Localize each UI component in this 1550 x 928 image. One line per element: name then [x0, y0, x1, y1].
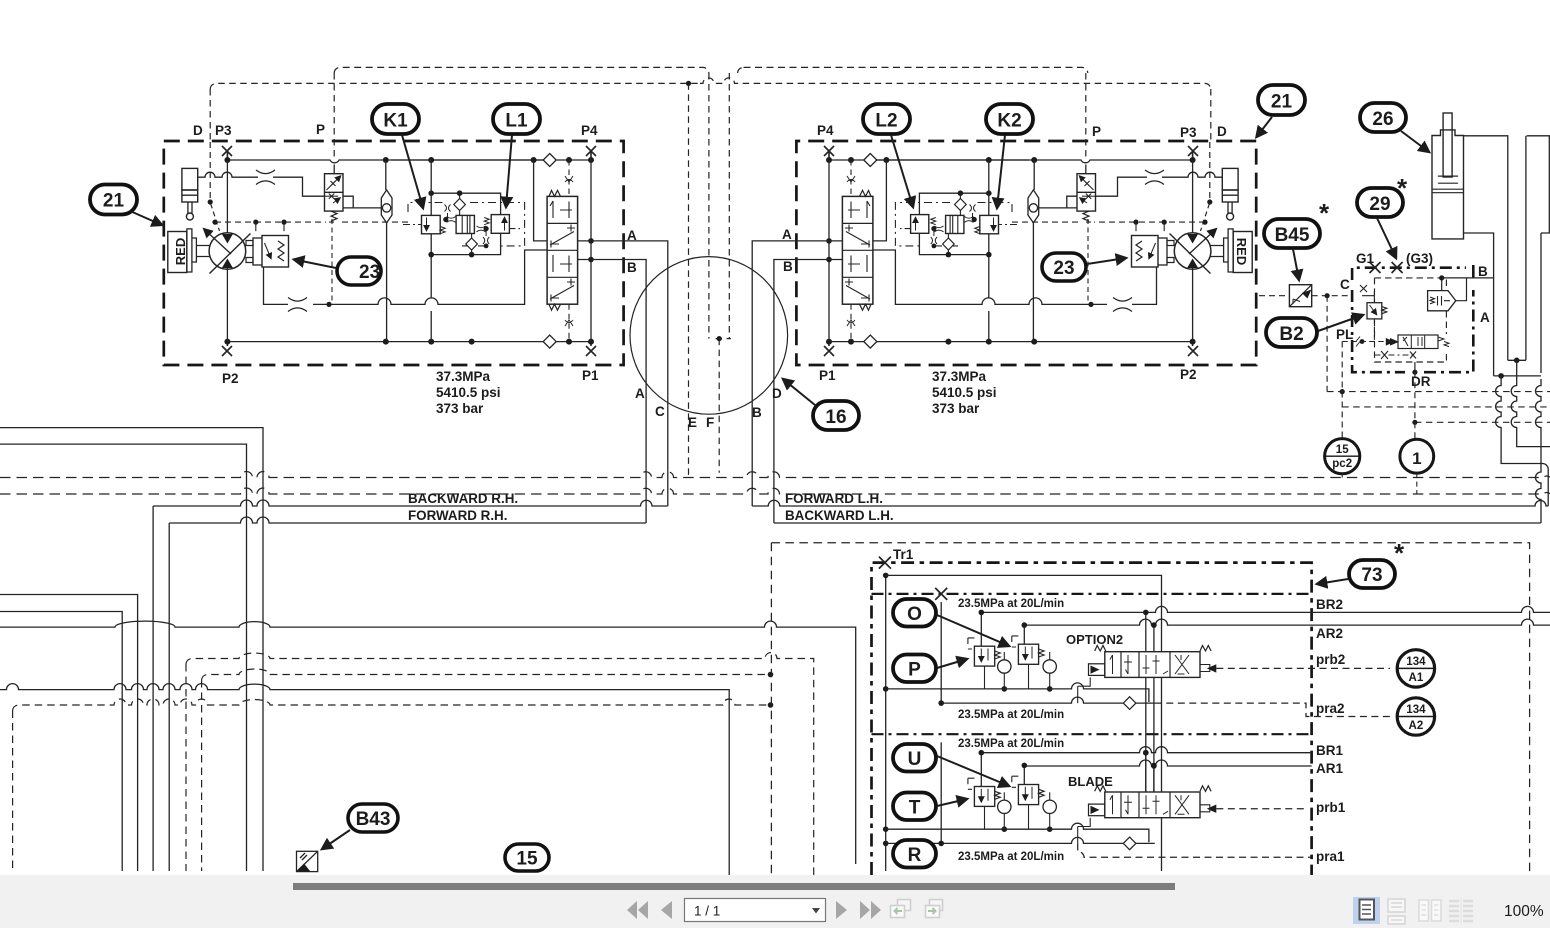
svg-text:C: C	[1340, 277, 1350, 292]
svg-text:373 bar: 373 bar	[932, 401, 980, 416]
B45 dashed connections	[1259, 295, 1352, 297]
svg-text:B: B	[783, 259, 793, 274]
svg-text:B43: B43	[356, 809, 391, 830]
svg-text:T: T	[909, 798, 921, 819]
svg-text:1 / 1: 1 / 1	[694, 904, 720, 919]
svg-text:AR1: AR1	[1316, 761, 1343, 776]
dashed F vertical	[718, 339, 720, 473]
dashed vertical right of mid	[716, 73, 731, 339]
feedback arrow to small circle	[204, 229, 231, 254]
svg-text:*: *	[1394, 538, 1405, 568]
callout 73	[1317, 538, 1405, 588]
big circle 16 (swivel)	[630, 257, 788, 415]
spool springs	[549, 190, 561, 196]
svg-text:L2: L2	[875, 111, 897, 132]
O section top rail	[886, 575, 1162, 651]
orifice right of shuttle	[477, 226, 486, 232]
top interconnect dashed rect P-P	[334, 67, 1088, 73]
dash stub below circles to bottom dashed lines	[1342, 473, 1417, 494]
reducing valve 1	[968, 638, 975, 649]
svg-text:prb1: prb1	[1316, 800, 1346, 815]
pump variable diagonal	[210, 234, 251, 274]
cylinder output line with hops	[198, 172, 325, 196]
svg-text:A: A	[627, 228, 637, 243]
enclosure 21 (heavy dashed box)	[164, 141, 624, 365]
horizontal y=689.6	[0, 684, 729, 875]
callout B2	[1266, 315, 1363, 347]
svg-text:73: 73	[1361, 565, 1382, 586]
diamond on pra feed	[1123, 697, 1136, 710]
svg-text:Tr1: Tr1	[893, 547, 914, 562]
pump triangles	[222, 234, 233, 268]
svg-text:P: P	[316, 122, 325, 137]
svg-text:5410.5 psi: 5410.5 psi	[932, 385, 997, 400]
pra1 dashed	[1078, 843, 1312, 857]
G3 X	[1392, 262, 1403, 273]
work-port verticals continuing between sections	[1146, 677, 1154, 792]
svg-text:prb2: prb2	[1316, 652, 1345, 667]
manifold cap	[1508, 359, 1526, 361]
dash-dot stub left of K1	[403, 224, 422, 226]
BACKWARD R.H. line	[153, 500, 668, 506]
long horizontal y=627	[0, 621, 856, 864]
dashed pilot rail y=222	[215, 221, 408, 223]
svg-text:D: D	[1217, 124, 1227, 139]
vertical from BACKWARD RH corner	[152, 506, 154, 871]
main spool valve body	[547, 196, 578, 304]
svg-text:A: A	[1480, 310, 1490, 325]
X mark P4 bottom	[586, 342, 596, 356]
feedback cylinder	[182, 168, 198, 190]
spool left feeds	[534, 160, 548, 241]
A-line manifold	[1494, 375, 1541, 377]
svg-text:BACKWARD L.H.: BACKWARD L.H.	[785, 508, 894, 523]
svg-text:F: F	[706, 415, 714, 430]
K1/L1 dash-dot box	[408, 203, 525, 246]
diamond check above shuttle	[459, 193, 461, 215]
svg-text:5410.5 psi: 5410.5 psi	[436, 385, 501, 400]
dashed vertical mid (ends at dot)	[708, 73, 710, 339]
svg-text:BR2: BR2	[1316, 597, 1343, 612]
svg-text:P3: P3	[215, 123, 232, 138]
svg-text:P: P	[908, 660, 921, 681]
BR1 rail	[981, 747, 1311, 753]
svg-text:15: 15	[516, 849, 538, 870]
svg-text:PL: PL	[1336, 327, 1353, 342]
svg-text:K2: K2	[997, 111, 1021, 132]
reducing valve 2 feed	[1023, 625, 1025, 644]
svg-text:134: 134	[1406, 656, 1426, 668]
BACKWARD L.H. line	[774, 522, 1541, 524]
section internals: arrows	[1110, 655, 1132, 674]
ball check 1	[1003, 652, 1005, 689]
svg-text:BACKWARD R.H.: BACKWARD R.H.	[408, 491, 518, 506]
dashed horizontals right area	[1327, 391, 1550, 393]
callout L1	[493, 104, 540, 207]
svg-text:26: 26	[1372, 109, 1393, 130]
callout 21 left	[90, 185, 162, 226]
ball check 2	[1049, 652, 1051, 689]
middle vertical 941	[940, 602, 942, 703]
throttle X on line	[256, 170, 275, 185]
RED shaft plates	[187, 229, 197, 272]
wire top rail mid segment	[381, 159, 545, 161]
pilot check (house)	[1428, 291, 1456, 311]
toolbar background	[0, 875, 1550, 928]
spool valve left solenoid	[1078, 677, 1091, 703]
top interconnect dashed D-D	[210, 78, 1211, 141]
dashed verticals bottom-left	[13, 664, 202, 871]
callout 21 right	[1257, 85, 1306, 137]
svg-text:A1: A1	[1409, 672, 1424, 684]
L1 box	[491, 215, 509, 234]
svg-text:P2: P2	[1180, 367, 1197, 382]
svg-text:RED: RED	[173, 238, 188, 265]
svg-text:B2: B2	[1279, 324, 1303, 345]
A port out	[578, 241, 668, 506]
svg-text:AR2: AR2	[1316, 626, 1343, 641]
cylinder 26 rod	[1443, 113, 1452, 177]
X on divider	[935, 588, 947, 600]
G1 X	[1370, 262, 1381, 273]
full-width dashed line y=477.5	[0, 472, 1550, 478]
vertical P4 right	[590, 160, 592, 342]
svg-text:L1: L1	[505, 111, 528, 132]
section divider dash-dot y=734.2	[872, 733, 1312, 735]
dashed y=703	[13, 699, 771, 711]
K1 group bottom line	[431, 233, 500, 254]
shaft lines	[196, 246, 209, 257]
svg-text:D: D	[193, 123, 203, 138]
svg-text:23: 23	[359, 262, 380, 283]
left exit line y=427.6	[0, 428, 263, 871]
svg-text:C: C	[655, 404, 665, 419]
svg-text:P3: P3	[1180, 125, 1197, 140]
orifice between K1 and shuttle	[447, 217, 456, 223]
PL dashed entry	[1342, 341, 1398, 343]
diamond on bottom rail	[543, 335, 556, 348]
B43 symbol	[297, 851, 318, 871]
dashed verticals below B45/C	[1326, 296, 1328, 392]
svg-text:B45: B45	[1275, 225, 1310, 246]
X mark P4 top	[586, 146, 596, 160]
callout 26	[1360, 103, 1429, 152]
B45 symbol	[1289, 285, 1311, 307]
left exit line y=444.1	[0, 444, 247, 871]
diamond on top rail	[543, 154, 556, 167]
enclosure 73 heavy dashed	[872, 563, 1312, 875]
svg-text:RED: RED	[1234, 238, 1249, 265]
throttle below dot	[483, 229, 489, 246]
circle 15/pc2	[1325, 439, 1360, 474]
B port out	[578, 260, 647, 524]
K1 spring	[440, 227, 445, 234]
svg-text:E: E	[688, 415, 697, 430]
svg-text:23.5MPa at 20L/min: 23.5MPa at 20L/min	[958, 738, 1064, 750]
relief valve 23	[246, 241, 253, 263]
circle 134/A1	[1397, 650, 1434, 687]
svg-text:134: 134	[1406, 704, 1426, 716]
svg-text:*: *	[1397, 173, 1408, 203]
svg-text:21: 21	[103, 191, 125, 212]
callout R	[893, 840, 936, 868]
B2 block enclosure	[1352, 265, 1473, 372]
section divider dash-dot y=593.9	[872, 593, 1312, 595]
svg-text:DR: DR	[1411, 374, 1431, 389]
vertical 431 through	[430, 160, 432, 342]
top rail	[227, 160, 591, 163]
bottom inner dash-dot with X marks	[1375, 354, 1415, 356]
svg-text:P4: P4	[817, 123, 834, 138]
svg-text:(G3): (G3)	[1406, 251, 1433, 266]
second cylinder offscreen	[1526, 136, 1550, 360]
valve1 output	[984, 666, 986, 689]
callout B45	[1264, 198, 1330, 280]
P feed vertical through valves	[1161, 677, 1163, 871]
dashed y=658.5	[186, 653, 814, 876]
svg-text:K1: K1	[383, 111, 408, 132]
top pilot stubs into valve	[1146, 612, 1154, 651]
P dashed vertical top	[333, 73, 335, 160]
svg-text:23.5MPa at 20L/min: 23.5MPa at 20L/min	[958, 598, 1064, 610]
circle 1	[1400, 439, 1434, 473]
valve output to oval	[343, 196, 381, 208]
AR1 rail	[1024, 760, 1311, 766]
svg-text:BR1: BR1	[1316, 743, 1343, 758]
svg-text:23.5MPa at 20L/min: 23.5MPa at 20L/min	[958, 851, 1064, 863]
svg-text:A: A	[782, 227, 792, 242]
svg-text:23: 23	[1053, 258, 1074, 279]
left line y=594.5	[0, 595, 138, 872]
B2 relief valve	[1367, 303, 1382, 319]
pressure control valve	[333, 165, 335, 174]
oval feeds	[385, 160, 388, 342]
svg-text:37.3MPa: 37.3MPa	[436, 369, 491, 384]
previous/next view window icons	[891, 900, 943, 918]
horizontal scrollbar thumb	[293, 883, 1175, 890]
RED box	[168, 232, 187, 273]
pra feed line	[941, 697, 1155, 703]
spring left of L1	[484, 218, 489, 225]
pump vertical feed	[226, 160, 228, 342]
L1 right dash-dot stub	[509, 228, 520, 230]
svg-text:16: 16	[825, 407, 846, 428]
spool internals arrows	[550, 201, 574, 245]
svg-text:A: A	[635, 386, 645, 401]
svg-text:P1: P1	[582, 368, 599, 383]
outer dashed box bottom-right	[771, 543, 1529, 875]
callout 15	[505, 844, 549, 871]
shuttle striped box	[456, 215, 474, 233]
callout B43	[322, 804, 398, 849]
valve spring	[331, 211, 337, 221]
vertical from FORWARD RH corner	[168, 523, 170, 871]
relief drain down then right	[264, 250, 548, 304]
svg-text:B: B	[1478, 264, 1488, 279]
diamond check below shuttle	[471, 234, 473, 255]
page view mode icons	[1353, 897, 1380, 924]
svg-text:P4: P4	[581, 123, 598, 138]
svg-text:R: R	[908, 845, 922, 866]
svg-text:373 bar: 373 bar	[436, 401, 484, 416]
svg-text:1: 1	[1412, 449, 1421, 468]
svg-text:P2: P2	[222, 371, 239, 386]
dashed y=674.5	[202, 669, 771, 680]
cylinder rod	[188, 202, 192, 214]
svg-text:29: 29	[1369, 194, 1390, 215]
K1 group top line	[431, 193, 500, 214]
cylinder ports	[1464, 136, 1508, 376]
inner dashed box	[1375, 278, 1447, 362]
svg-text:*: *	[1319, 198, 1330, 228]
page navigation arrows	[627, 901, 881, 919]
svg-text:pra2: pra2	[1316, 701, 1345, 716]
svg-text:O: O	[907, 604, 922, 625]
AR2 rail	[1024, 619, 1550, 625]
svg-text:pc2: pc2	[1332, 458, 1352, 470]
dashed D-line into pump	[209, 142, 211, 201]
FORWARD R.H. line	[169, 517, 646, 523]
K1 box	[422, 215, 441, 233]
spool valve body	[1105, 652, 1200, 678]
svg-text:21: 21	[1271, 92, 1293, 113]
cylinder 26 body	[1432, 130, 1464, 239]
callout 23 right	[1042, 253, 1126, 281]
svg-text:G1: G1	[1356, 251, 1375, 266]
circle 134/A2	[1397, 698, 1434, 735]
page number box 1/1	[685, 899, 826, 922]
solenoid valve in B2	[1398, 335, 1438, 349]
svg-text:BLADE: BLADE	[1068, 774, 1113, 789]
DR exit	[1414, 362, 1416, 372]
check to B port	[1442, 278, 1494, 291]
callout O	[893, 599, 1009, 646]
throttle small above K1 right	[445, 205, 451, 212]
X mark P3 top	[222, 146, 232, 160]
full-width dashed line y=494	[0, 488, 1550, 494]
section bottom rail	[886, 683, 1149, 702]
svg-text:15: 15	[1336, 444, 1349, 456]
left line y=611.5	[0, 612, 122, 872]
svg-text:100%: 100%	[1504, 903, 1544, 920]
junction dots top rail	[224, 157, 594, 345]
prb dashed out	[1216, 667, 1308, 669]
Tr1 X mark	[879, 557, 891, 569]
svg-text:D: D	[772, 386, 782, 401]
callout 16	[783, 379, 859, 430]
svg-text:FORWARD R.H.: FORWARD R.H.	[408, 508, 507, 523]
reducing valve 2	[1012, 636, 1019, 647]
svg-text:23.5MPa at 20L/min: 23.5MPa at 20L/min	[958, 709, 1064, 721]
svg-text:pra1: pra1	[1316, 849, 1345, 864]
svg-text:U: U	[908, 749, 922, 770]
callout 23 left	[294, 257, 381, 285]
callout L2	[863, 104, 913, 207]
svg-text:P1: P1	[819, 368, 836, 383]
pump circle	[209, 233, 246, 270]
svg-text:A2: A2	[1409, 720, 1424, 732]
BR2 rail	[981, 606, 1550, 612]
bottom rail	[227, 341, 591, 343]
throttle X on drain	[288, 298, 307, 312]
svg-text:37.3MPa: 37.3MPa	[932, 369, 987, 384]
small circle joint	[186, 213, 193, 220]
X mark P3 bottom	[222, 342, 232, 356]
pilot dashed below valve	[329, 219, 334, 303]
callout T	[893, 793, 967, 821]
FORWARD L.H. line	[752, 500, 1548, 506]
valve2 output	[1028, 664, 1030, 689]
callout K2	[986, 104, 1033, 208]
callout U	[893, 744, 1009, 786]
oval throttle	[381, 190, 392, 223]
pra2 dashed to circle	[1155, 703, 1390, 716]
callout K1	[372, 104, 423, 208]
callout P	[893, 655, 967, 683]
reducing valve 1 feed	[980, 612, 982, 646]
left rail vertical x=885.7	[885, 575, 887, 871]
callout 29	[1357, 173, 1408, 258]
pilot dashed above/below spool	[568, 160, 570, 342]
svg-text:FORWARD L.H.: FORWARD L.H.	[785, 491, 883, 506]
svg-text:B: B	[627, 260, 637, 275]
prb2 extension to circle	[1308, 667, 1390, 669]
dashed E vertical	[688, 83, 690, 479]
right springs/solenoid	[1200, 646, 1211, 652]
svg-text:P: P	[1092, 124, 1101, 139]
svg-text:B: B	[752, 405, 762, 420]
svg-text:OPTION2: OPTION2	[1066, 632, 1123, 647]
